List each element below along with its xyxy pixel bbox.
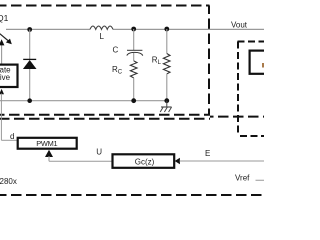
top wire (switch node to Vout): [6, 28, 264, 30]
A/D label fragment (colored): [262, 63, 264, 68]
DSP dashed box bottom edge: [0, 194, 264, 196]
wire capacitor to RC: [133, 53, 135, 61]
PWM1 box: [18, 138, 77, 149]
svg-text:drive: drive: [0, 73, 11, 82]
svg-text:PWM1: PWM1: [36, 139, 57, 148]
gate wire from gate drive to Q1 (arrow up): [0, 39, 4, 63]
svg-text:C: C: [113, 46, 119, 55]
node: diode bottom junction: [27, 98, 32, 103]
A/D dashed box top edge: [238, 41, 265, 43]
svg-text:280x: 280x: [0, 177, 17, 186]
wire to diode: [29, 30, 31, 60]
ground rail wire: [0, 100, 167, 102]
svg-text:E: E: [205, 149, 210, 158]
transistor Q1 (partially cut at left edge): [0, 33, 12, 45]
E wire into Gc(z) (arrow left into box): [175, 158, 264, 165]
node: capacitor top junction: [131, 27, 136, 32]
resistor RL (load): [163, 54, 170, 74]
power stage dashed box right edge: [208, 6, 210, 116]
svg-text:Vout: Vout: [231, 20, 248, 29]
capacitor C: [127, 50, 143, 55]
diode D1: [23, 59, 37, 69]
wire diode to ground rail: [29, 69, 31, 101]
node: RL top junction: [164, 27, 169, 32]
A/D dashed box bottom edge: [240, 135, 264, 137]
A/D converter box (cut at right edge): [250, 51, 270, 74]
svg-text:L: L: [100, 32, 105, 41]
wire to RL: [166, 29, 168, 54]
svg-text:Q1: Q1: [0, 13, 9, 23]
U wire from Gc(z) to PWM1 (arrow up into PWM1): [45, 150, 113, 162]
Vref wire stub: [256, 179, 265, 181]
ground symbol: [160, 101, 171, 112]
power stage dashed box top edge: [0, 5, 210, 7]
DSP dashed box top edge (right part): [210, 116, 264, 118]
node: RC bottom junction: [131, 98, 136, 103]
resistor RC (ESR): [130, 61, 137, 78]
svg-text:d: d: [10, 132, 14, 141]
svg-text:Vref: Vref: [235, 174, 250, 183]
wire to capacitor: [133, 29, 135, 50]
svg-text:U: U: [96, 148, 102, 157]
power stage dashed box bottom edge: [0, 114, 210, 116]
A/D dashed box left edge: [237, 42, 239, 137]
inductor L: [90, 26, 113, 29]
d wire from PWM1 to gate drive (arrow up into box): [0, 89, 17, 140]
node: switch node junction: [27, 27, 32, 32]
wire RL to ground rail: [166, 74, 168, 101]
node: RL bottom junction: [164, 98, 169, 103]
wire RC to ground rail: [133, 78, 135, 101]
compensator Gc(z) box: [113, 154, 175, 168]
svg-text:Gc(z): Gc(z): [135, 157, 155, 166]
gate drive box: [0, 65, 18, 87]
DSP dashed box top edge (left part): [0, 118, 210, 120]
